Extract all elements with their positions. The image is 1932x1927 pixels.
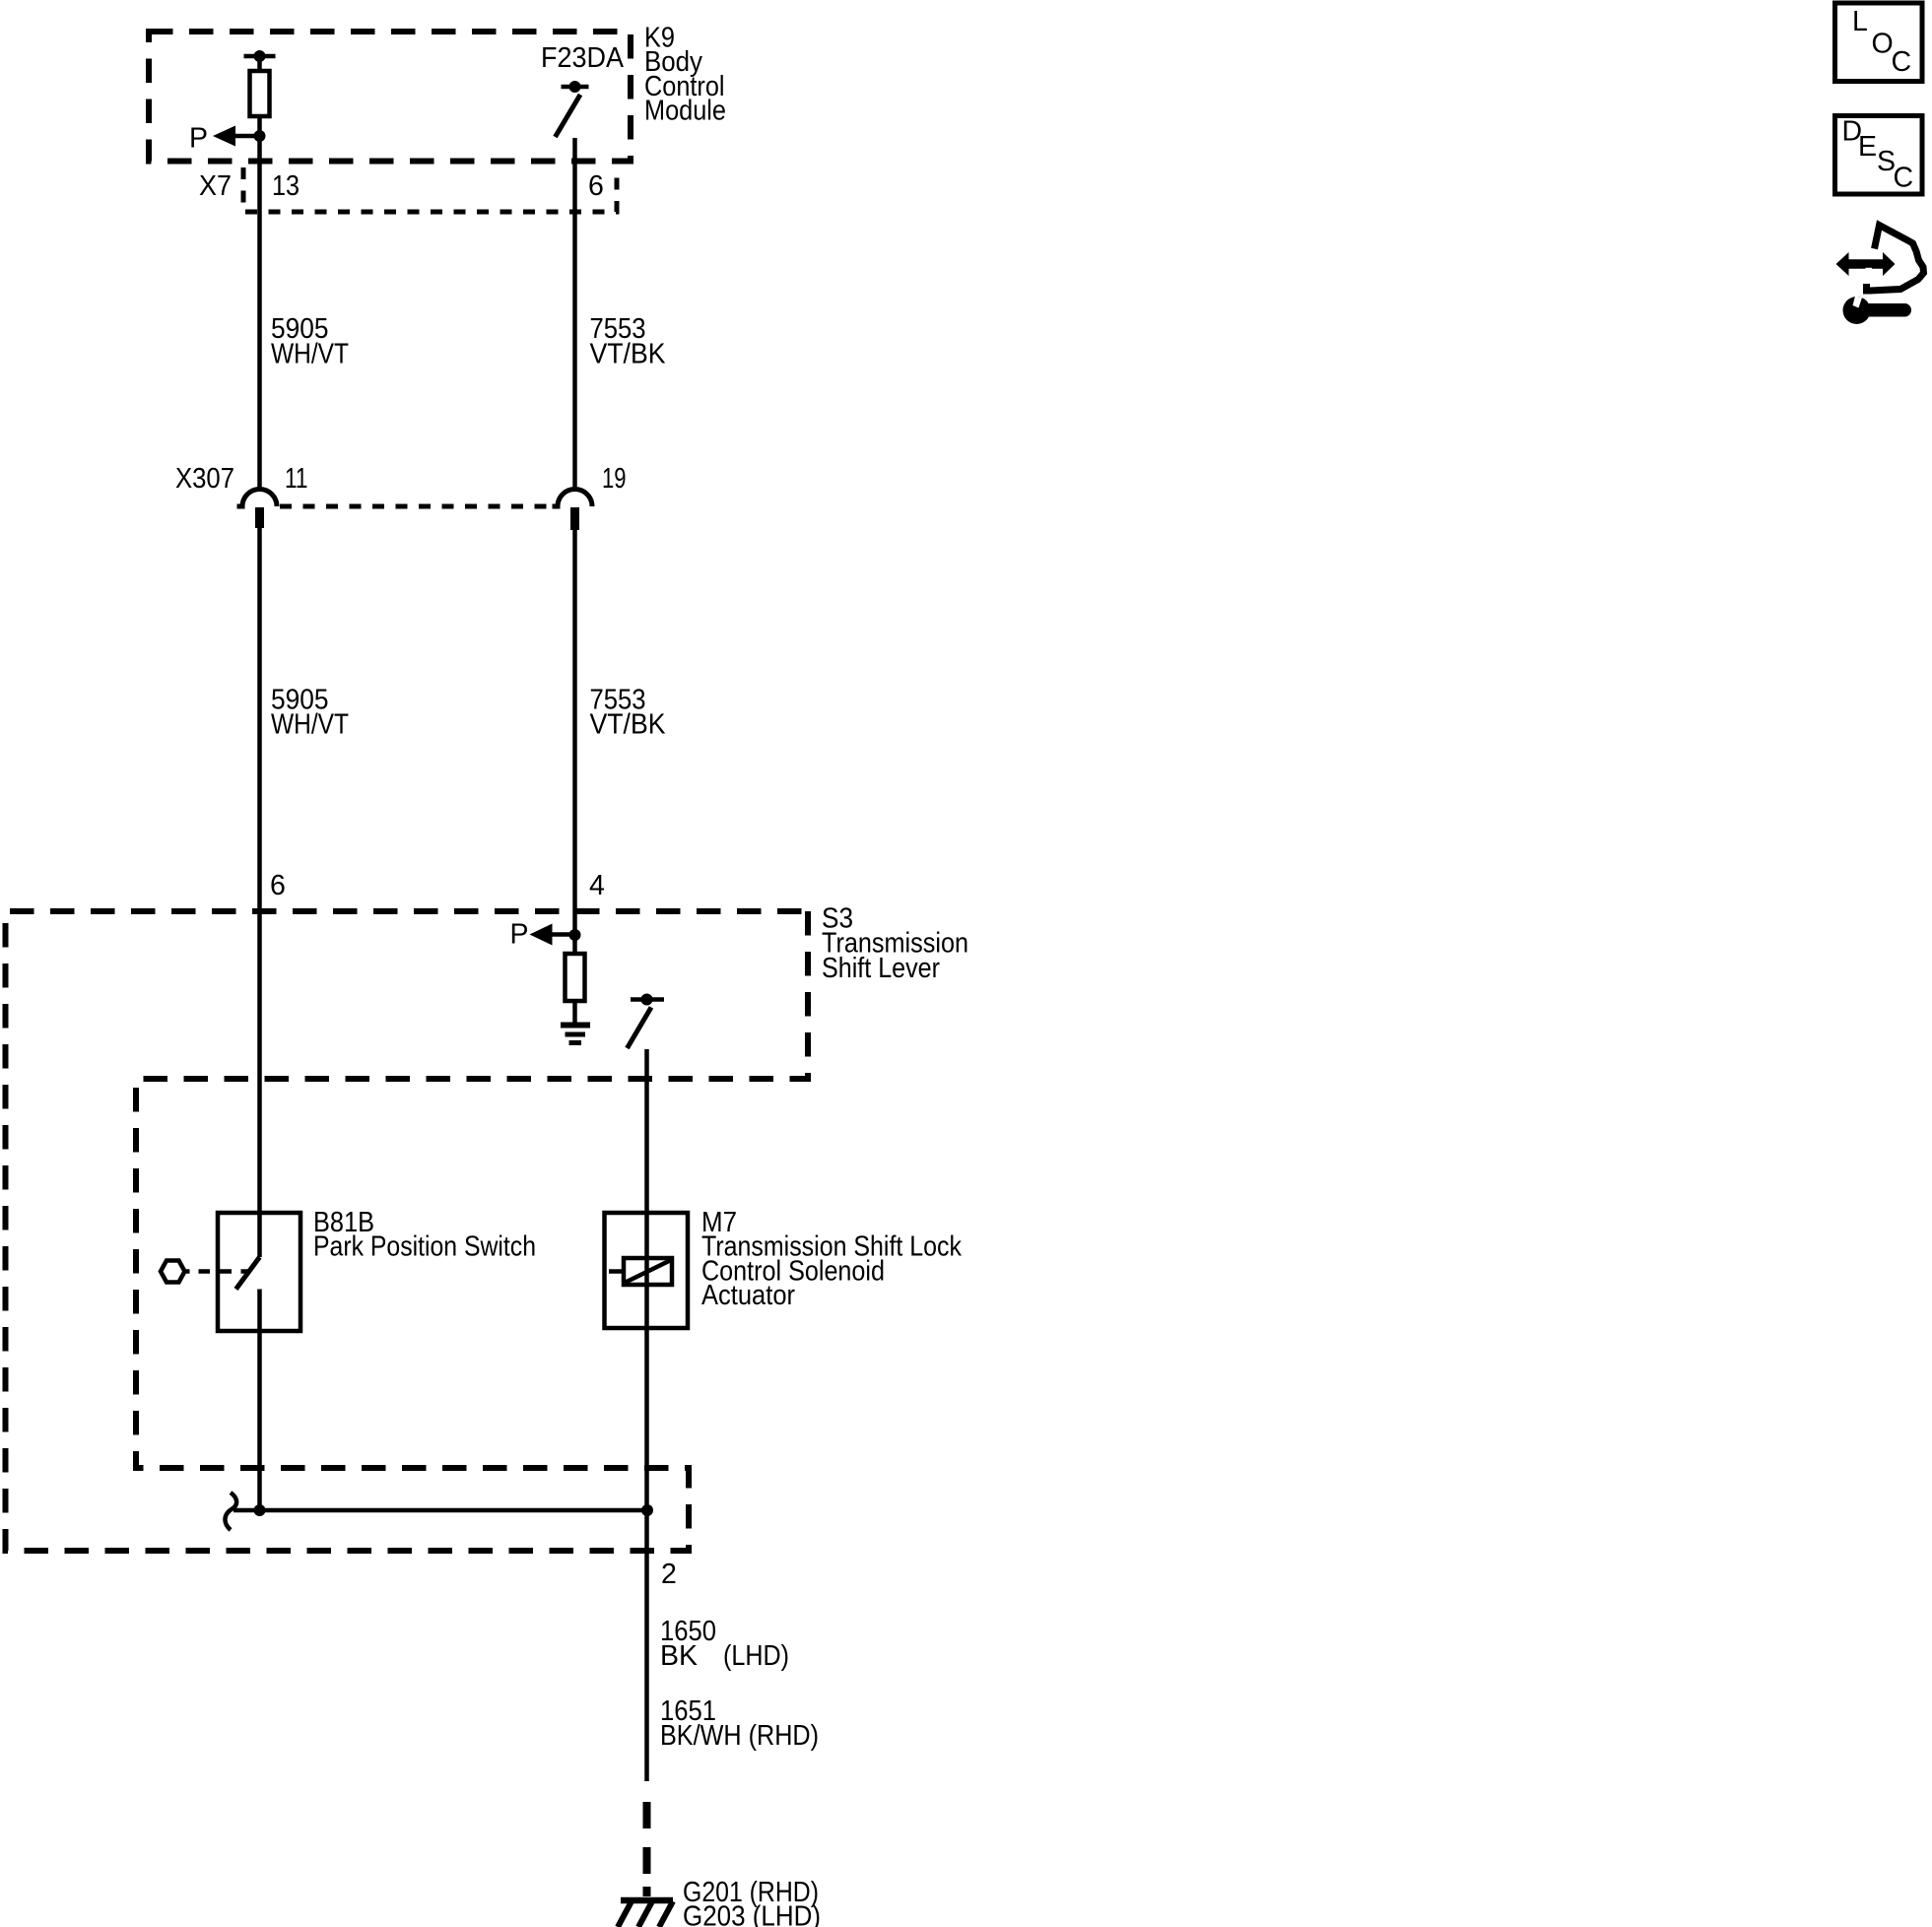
svg-text:2: 2 <box>661 1559 677 1590</box>
svg-text:13: 13 <box>272 170 300 202</box>
svg-text:E: E <box>1858 131 1877 163</box>
svg-text:(LHD): (LHD) <box>723 1640 789 1672</box>
svg-text:P: P <box>189 123 208 155</box>
svg-text:Park Position Switch: Park Position Switch <box>313 1231 536 1263</box>
svg-text:BK/WH (RHD): BK/WH (RHD) <box>660 1720 819 1752</box>
svg-text:VT/BK: VT/BK <box>590 339 666 370</box>
svg-text:Module: Module <box>644 96 726 127</box>
svg-text:BK: BK <box>660 1640 698 1672</box>
svg-text:P: P <box>510 919 529 951</box>
svg-text:C: C <box>1892 46 1912 78</box>
svg-text:WH/VT: WH/VT <box>271 339 349 370</box>
svg-text:19: 19 <box>602 463 627 495</box>
svg-text:6: 6 <box>270 870 286 901</box>
svg-text:6: 6 <box>588 170 604 202</box>
svg-text:11: 11 <box>285 463 308 495</box>
svg-text:X7: X7 <box>199 170 232 202</box>
svg-text:O: O <box>1872 29 1894 60</box>
svg-text:VT/BK: VT/BK <box>590 709 666 741</box>
svg-text:Shift Lever: Shift Lever <box>822 953 940 984</box>
svg-text:F23DA: F23DA <box>541 42 624 74</box>
svg-text:X307: X307 <box>175 463 234 495</box>
svg-text:WH/VT: WH/VT <box>271 709 349 741</box>
svg-text:C: C <box>1894 163 1914 194</box>
svg-text:4: 4 <box>589 870 605 901</box>
svg-text:Actuator: Actuator <box>701 1280 795 1311</box>
svg-text:G203 (LHD): G203 (LHD) <box>683 1901 821 1927</box>
svg-text:L: L <box>1852 6 1868 37</box>
